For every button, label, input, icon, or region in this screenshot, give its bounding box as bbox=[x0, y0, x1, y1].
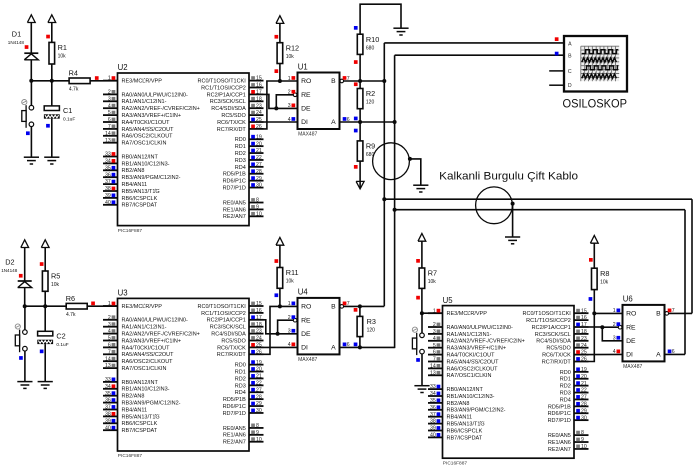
svg-text:RC5/SDO: RC5/SDO bbox=[221, 338, 246, 344]
wire D1 anode to node row / horizontal node wire to U2 pin 1 bbox=[30, 60, 32, 81]
svg-text:RE: RE bbox=[301, 317, 311, 324]
svg-text:15: 15 bbox=[581, 308, 587, 314]
svg-text:RA0/AN0/ULPWU/C12IN0-: RA0/AN0/ULPWU/C12IN0- bbox=[447, 325, 513, 331]
svg-text:RA6/OSC2/CLKOUT: RA6/OSC2/CLKOUT bbox=[447, 366, 499, 372]
state square button SW2 bottom bbox=[19, 356, 23, 360]
ground below SW3 bbox=[414, 386, 429, 393]
svg-text:25: 25 bbox=[256, 117, 262, 123]
svg-text:17: 17 bbox=[256, 315, 262, 321]
svg-text:RD6/P1C: RD6/P1C bbox=[223, 179, 246, 185]
svg-text:RB4/AN11: RB4/AN11 bbox=[447, 415, 473, 421]
svg-text:RC6/TX/CK: RC6/TX/CK bbox=[217, 345, 246, 351]
svg-text:3: 3 bbox=[108, 322, 111, 328]
wire R7 bottom to U5 pin1 node bbox=[421, 288, 423, 313]
svg-text:R2: R2 bbox=[366, 89, 375, 98]
svg-text:R11: R11 bbox=[286, 268, 299, 277]
svg-text:RC0/T1OSO/T1CKI: RC0/T1OSO/T1CKI bbox=[198, 79, 247, 85]
state square R10 top bbox=[354, 26, 358, 30]
svg-text:1: 1 bbox=[108, 76, 111, 82]
svg-text:34: 34 bbox=[105, 384, 111, 390]
junction R8/U6.RO bbox=[592, 311, 596, 315]
svg-text:RE: RE bbox=[301, 92, 311, 99]
svg-text:C2: C2 bbox=[56, 332, 65, 341]
state square R2 top bbox=[354, 82, 358, 86]
wire B node vertical (to scope and cable) bbox=[383, 43, 385, 306]
svg-text:RD7/P1D: RD7/P1D bbox=[223, 411, 246, 417]
svg-text:RE3/MCLR/VPP: RE3/MCLR/VPP bbox=[447, 311, 488, 317]
svg-text:RD6/P1C: RD6/P1C bbox=[223, 404, 246, 410]
svg-text:RD3: RD3 bbox=[560, 390, 571, 396]
svg-text:28: 28 bbox=[256, 169, 262, 175]
svg-text:RC1/T1OSI/CCP2: RC1/T1OSI/CCP2 bbox=[526, 318, 571, 324]
svg-text:RB1/AN10/C12IN3-: RB1/AN10/C12IN3- bbox=[447, 394, 495, 400]
svg-text:RA1/AN1/C12IN1-: RA1/AN1/C12IN1- bbox=[122, 99, 167, 105]
wire branch U4.RE tie bbox=[278, 320, 294, 334]
svg-text:RB2/AN8: RB2/AN8 bbox=[122, 394, 145, 400]
power VCC arrow above D1 bbox=[27, 15, 35, 53]
svg-text:14: 14 bbox=[105, 131, 111, 137]
wire button SW2 bottom to ground bbox=[24, 351, 26, 382]
svg-text:RO: RO bbox=[301, 304, 311, 311]
svg-text:RD7/P1D: RD7/P1D bbox=[223, 185, 246, 191]
svg-text:120: 120 bbox=[367, 328, 376, 334]
svg-text:RE1/AN6: RE1/AN6 bbox=[223, 207, 246, 213]
resistor R9 680 bbox=[357, 141, 375, 161]
svg-text:20: 20 bbox=[581, 374, 587, 380]
ground of left shield tap bbox=[413, 185, 428, 192]
wire U4.A to A bus riser bbox=[340, 346, 395, 348]
svg-text:B: B bbox=[331, 78, 336, 85]
svg-text:RE0/AN5: RE0/AN5 bbox=[223, 200, 246, 206]
state square R3 bottom bbox=[354, 343, 358, 347]
svg-text:RB6/ICSPCLK: RB6/ICSPCLK bbox=[122, 421, 158, 427]
svg-text:34: 34 bbox=[430, 391, 436, 397]
svg-text:RA2/AN2/VREF-/CVREF/C2IN+: RA2/AN2/VREF-/CVREF/C2IN+ bbox=[122, 106, 200, 112]
svg-text:RD5/P1B: RD5/P1B bbox=[223, 397, 246, 403]
wire U5.RC2(17) to U6 RE/DE tie bbox=[589, 326, 603, 328]
junction U1 DE/RE tie bbox=[274, 106, 278, 110]
svg-text:27: 27 bbox=[256, 162, 262, 168]
svg-text:RC0/T1OSO/T1CKI: RC0/T1OSO/T1CKI bbox=[523, 311, 572, 317]
svg-text:23: 23 bbox=[256, 329, 262, 335]
ground of right shield tap bbox=[505, 237, 520, 244]
svg-text:RC0/T1OSO/T1CKI: RC0/T1OSO/T1CKI bbox=[198, 304, 247, 310]
svg-text:9: 9 bbox=[581, 437, 584, 443]
svg-text:RE0/AN5: RE0/AN5 bbox=[223, 426, 246, 432]
svg-text:25: 25 bbox=[581, 350, 587, 356]
svg-text:26: 26 bbox=[581, 357, 587, 363]
svg-text:D2: D2 bbox=[5, 258, 14, 267]
svg-text:38: 38 bbox=[105, 412, 111, 418]
svg-text:RB3/AN9/PGM/C12IN2-: RB3/AN9/PGM/C12IN2- bbox=[447, 408, 506, 414]
wire U3.RC6(25) to U4.DI bbox=[264, 346, 298, 348]
oscilloscope OSILOSKOP bbox=[564, 36, 627, 92]
capacitor C2 0.1uF bbox=[37, 331, 68, 348]
svg-text:MAX487: MAX487 bbox=[298, 132, 317, 138]
svg-text:15: 15 bbox=[256, 301, 262, 307]
junction node D1/wire bbox=[29, 79, 33, 83]
wire R9 top stem bbox=[359, 122, 361, 141]
svg-text:35: 35 bbox=[105, 165, 111, 171]
svg-text:R6: R6 bbox=[66, 294, 75, 303]
wire U3.RC7(26) to U4.RO bbox=[264, 306, 298, 354]
transceiver U1 MAX487 bbox=[288, 62, 350, 137]
wire button SW3 top bbox=[421, 313, 423, 333]
svg-text:DI: DI bbox=[301, 345, 308, 352]
svg-text:26: 26 bbox=[256, 124, 262, 130]
wire R2 stems bbox=[359, 81, 361, 89]
state square R10 bottom bbox=[354, 60, 358, 64]
svg-text:19: 19 bbox=[581, 367, 587, 373]
svg-text:4: 4 bbox=[108, 329, 111, 335]
svg-text:RA4/T0CKI/C1OUT: RA4/T0CKI/C1OUT bbox=[122, 345, 171, 351]
diode D2 1N4148 bbox=[1, 258, 32, 288]
wire R11 bottom to U4.RO node bbox=[279, 288, 281, 306]
svg-text:28: 28 bbox=[256, 394, 262, 400]
svg-text:24: 24 bbox=[256, 336, 262, 342]
resistor R3 120 bbox=[357, 316, 376, 336]
state square R12 top bbox=[275, 35, 279, 39]
svg-text:OSILOSKOP: OSILOSKOP bbox=[563, 97, 628, 111]
svg-text:RD4: RD4 bbox=[235, 390, 246, 396]
state square C1 bottom bbox=[46, 124, 50, 128]
svg-text:34: 34 bbox=[105, 159, 111, 165]
svg-text:RB3/AN9/PGM/C12IN2-: RB3/AN9/PGM/C12IN2- bbox=[122, 175, 181, 181]
junction R11/U4.RO bbox=[278, 304, 282, 308]
svg-text:27: 27 bbox=[256, 387, 262, 393]
svg-text:RA0/AN0/ULPWU/C12IN0-: RA0/AN0/ULPWU/C12IN0- bbox=[122, 318, 188, 324]
svg-text:R3: R3 bbox=[367, 317, 376, 326]
svg-text:DE: DE bbox=[626, 338, 636, 345]
svg-text:10k: 10k bbox=[600, 279, 609, 285]
wire node to U5 pin 1 bbox=[422, 312, 443, 314]
svg-text:35: 35 bbox=[105, 391, 111, 397]
push button SW3 (U5 reset) bbox=[412, 327, 424, 355]
wire U2.RC6(25) to U1.DI bbox=[264, 121, 298, 123]
svg-text:DE: DE bbox=[301, 331, 311, 338]
wire D2 anode to node row / horizontal node wire to U3 pin 1 bbox=[24, 287, 26, 306]
svg-text:RB4/AN11: RB4/AN11 bbox=[122, 407, 148, 413]
wire shield tap left to ground bbox=[410, 159, 421, 185]
power VCC arrow above R12 bbox=[276, 16, 284, 43]
svg-text:37: 37 bbox=[105, 179, 111, 185]
svg-text:33: 33 bbox=[105, 152, 111, 158]
microcontroller U3 PIC16F887 bbox=[103, 289, 264, 460]
power VCC arrow above R1 bbox=[48, 15, 56, 43]
resistor R12 10k bbox=[277, 43, 299, 64]
svg-text:RC3/SCK/SCL: RC3/SCK/SCL bbox=[210, 325, 246, 331]
svg-text:RB1/AN10/C12IN3-: RB1/AN10/C12IN3- bbox=[122, 161, 170, 167]
svg-text:RD2: RD2 bbox=[235, 151, 246, 157]
svg-text:RC4/SDI/SDA: RC4/SDI/SDA bbox=[211, 332, 246, 338]
wire C2 bottom to ground bbox=[44, 344, 46, 382]
junction R3 bottom on A line bbox=[358, 345, 362, 349]
svg-text:R8: R8 bbox=[600, 269, 609, 278]
svg-text:14: 14 bbox=[105, 356, 111, 362]
svg-text:RD3: RD3 bbox=[235, 158, 246, 164]
svg-text:RE2/AN7: RE2/AN7 bbox=[223, 214, 246, 220]
junction U6 RE/DE tie bbox=[600, 325, 604, 329]
svg-text:6: 6 bbox=[108, 343, 111, 349]
svg-text:A: A bbox=[331, 119, 336, 126]
svg-text:U4: U4 bbox=[298, 288, 309, 297]
svg-text:RA0/AN0/ULPWU/C12IN0-: RA0/AN0/ULPWU/C12IN0- bbox=[122, 92, 188, 98]
svg-text:RO: RO bbox=[301, 78, 311, 85]
svg-text:10: 10 bbox=[256, 437, 262, 443]
state square scope channel A input bbox=[555, 37, 559, 41]
svg-text:RD2: RD2 bbox=[560, 384, 571, 390]
svg-text:23: 23 bbox=[581, 336, 587, 342]
svg-text:R4: R4 bbox=[69, 69, 78, 78]
wire oscilloscope channel C stub bbox=[549, 70, 564, 72]
state square R8 top bbox=[589, 258, 593, 262]
state square R5 top bbox=[40, 262, 44, 266]
wire R10 top to ground (up and right) bbox=[360, 4, 401, 34]
svg-text:PIC16F887: PIC16F887 bbox=[118, 228, 143, 234]
junction R7/U5.MCLR/button bbox=[420, 311, 424, 315]
resistor R8 10k bbox=[592, 268, 610, 289]
svg-text:14: 14 bbox=[430, 364, 436, 370]
ground at R10 (top) bbox=[393, 28, 408, 35]
state square D1 cathode bbox=[25, 45, 29, 49]
wire U2.RC7(26) to U1.RO bbox=[264, 81, 298, 129]
wire button bottom to ground bbox=[30, 127, 32, 158]
svg-text:39: 39 bbox=[105, 418, 111, 424]
svg-text:RA3/AN3/VREF+/C1IN+: RA3/AN3/VREF+/C1IN+ bbox=[122, 113, 182, 119]
svg-text:21: 21 bbox=[256, 374, 262, 380]
svg-text:10k: 10k bbox=[428, 279, 437, 285]
state square D2 cathode bbox=[19, 274, 23, 278]
svg-text:24: 24 bbox=[581, 343, 587, 349]
svg-text:39: 39 bbox=[105, 193, 111, 199]
capacitor C1 0.1uF bbox=[44, 106, 75, 123]
svg-text:RD1: RD1 bbox=[235, 369, 246, 375]
svg-text:4.7k: 4.7k bbox=[66, 312, 76, 318]
svg-text:20: 20 bbox=[256, 367, 262, 373]
svg-text:4: 4 bbox=[108, 103, 111, 109]
svg-text:13: 13 bbox=[105, 363, 111, 369]
ground below SW1 bbox=[24, 157, 39, 164]
svg-text:7: 7 bbox=[108, 124, 111, 130]
svg-text:25: 25 bbox=[256, 343, 262, 349]
svg-text:RA3/AN3/VREF+/C1IN+: RA3/AN3/VREF+/C1IN+ bbox=[447, 346, 507, 352]
svg-text:16: 16 bbox=[256, 308, 262, 314]
power VCC arrow above R11 bbox=[276, 238, 284, 268]
svg-text:A: A bbox=[568, 41, 572, 47]
resistor R1 10k bbox=[49, 42, 67, 64]
microcontroller U2 PIC16F887 bbox=[103, 63, 264, 234]
push button SW1 (top-left) bbox=[22, 100, 34, 128]
microcontroller U5 PIC16F887 bbox=[428, 296, 589, 467]
state square R11 top bbox=[275, 259, 279, 263]
svg-text:RA4/T0CKI/C1OUT: RA4/T0CKI/C1OUT bbox=[122, 120, 171, 126]
state square scope channel B input bbox=[555, 52, 559, 56]
resistor R5 10k bbox=[42, 271, 60, 291]
svg-text:2: 2 bbox=[108, 90, 111, 96]
wire U6.B to bus corner bbox=[669, 312, 692, 314]
svg-text:36: 36 bbox=[430, 405, 436, 411]
svg-text:RC1/T1OSI/CCP2: RC1/T1OSI/CCP2 bbox=[201, 85, 246, 91]
resistor R2 120 bbox=[357, 89, 375, 109]
wire A to oscilloscope channel B bbox=[395, 54, 564, 56]
svg-text:RE: RE bbox=[626, 324, 636, 331]
svg-text:23: 23 bbox=[256, 103, 262, 109]
state square R12 bottom bbox=[275, 69, 279, 73]
svg-text:RD2: RD2 bbox=[235, 376, 246, 382]
svg-text:RC7/RX/DT: RC7/RX/DT bbox=[217, 352, 247, 358]
wire R3 stems bbox=[359, 306, 361, 316]
svg-text:120: 120 bbox=[366, 100, 375, 106]
svg-text:R9: R9 bbox=[366, 142, 375, 151]
svg-text:RC1/T1OSI/CCP2: RC1/T1OSI/CCP2 bbox=[201, 311, 246, 317]
state square R9 top bbox=[354, 129, 358, 133]
svg-text:10: 10 bbox=[256, 211, 262, 217]
svg-text:D: D bbox=[568, 83, 572, 89]
ground below C1 bbox=[44, 157, 59, 164]
junction B/scope riser bbox=[382, 79, 386, 83]
junction U4 DE/RE tie bbox=[276, 332, 280, 336]
svg-text:39: 39 bbox=[430, 426, 436, 432]
svg-text:13: 13 bbox=[105, 138, 111, 144]
svg-text:7: 7 bbox=[108, 349, 111, 355]
junction node R1/C1/wire bbox=[50, 79, 54, 83]
state square R2 bottom bbox=[354, 117, 358, 121]
state square R6 right bbox=[91, 302, 95, 306]
resistor R6 4.7k bbox=[66, 294, 88, 318]
svg-text:C1: C1 bbox=[63, 106, 72, 115]
svg-text:22: 22 bbox=[256, 155, 262, 161]
svg-text:36: 36 bbox=[105, 398, 111, 404]
junction shield tap left bbox=[408, 157, 412, 161]
junction A/scope riser bbox=[393, 120, 397, 124]
svg-text:RD0: RD0 bbox=[235, 137, 246, 143]
svg-text:RC2/P1A/CCP1: RC2/P1A/CCP1 bbox=[532, 325, 571, 331]
state square R11 bottom bbox=[275, 293, 279, 297]
ground below SW2 bbox=[17, 382, 32, 389]
svg-text:RB3/AN9/PGM/C12IN2-: RB3/AN9/PGM/C12IN2- bbox=[122, 401, 181, 407]
svg-text:0.1uF: 0.1uF bbox=[63, 117, 75, 123]
ground arrow below R9 bbox=[356, 161, 364, 189]
ground below C2 bbox=[38, 382, 53, 389]
svg-text:18: 18 bbox=[256, 322, 262, 328]
svg-text:29: 29 bbox=[581, 408, 587, 414]
svg-text:RC6/TX/CK: RC6/TX/CK bbox=[542, 353, 571, 359]
junction shield tap right bbox=[511, 202, 515, 206]
svg-text:RC3/SCK/SCL: RC3/SCK/SCL bbox=[535, 332, 571, 338]
svg-text:30: 30 bbox=[256, 408, 262, 414]
svg-text:18: 18 bbox=[581, 329, 587, 335]
state square R4 right bbox=[95, 76, 99, 80]
svg-text:38: 38 bbox=[105, 186, 111, 192]
svg-text:10k: 10k bbox=[286, 279, 295, 285]
svg-text:RB0/AN12/INT: RB0/AN12/INT bbox=[122, 154, 159, 160]
svg-text:RO: RO bbox=[626, 311, 636, 318]
svg-text:RB2/AN8: RB2/AN8 bbox=[122, 168, 145, 174]
svg-text:17: 17 bbox=[581, 322, 587, 328]
wire A bus down to U6.A bbox=[684, 210, 686, 355]
svg-text:U1: U1 bbox=[298, 62, 308, 71]
svg-text:B: B bbox=[568, 54, 572, 60]
junction node R5/C2/wire bbox=[43, 304, 47, 308]
svg-text:21: 21 bbox=[256, 148, 262, 154]
svg-text:R10: R10 bbox=[366, 35, 379, 44]
svg-text:RE1/AN6: RE1/AN6 bbox=[548, 440, 571, 446]
svg-text:U2: U2 bbox=[118, 63, 128, 72]
svg-text:RA1/AN1/C12IN1-: RA1/AN1/C12IN1- bbox=[122, 325, 167, 331]
wire R5 bottom through node to C2 top bbox=[44, 291, 46, 331]
transceiver U4 MAX487 bbox=[288, 288, 350, 363]
svg-text:RD5/P1B: RD5/P1B bbox=[223, 172, 246, 178]
svg-text:17: 17 bbox=[256, 90, 262, 96]
svg-text:RE1/AN6: RE1/AN6 bbox=[223, 433, 246, 439]
state square button SW1 bottom bbox=[26, 131, 30, 135]
svg-text:RE0/AN5: RE0/AN5 bbox=[548, 433, 571, 439]
wire branch U1.RE tie bbox=[276, 95, 293, 109]
svg-text:RD5/P1B: RD5/P1B bbox=[548, 404, 571, 410]
svg-text:RA5/AN4/SS/C2OUT: RA5/AN4/SS/C2OUT bbox=[447, 359, 500, 365]
svg-text:8: 8 bbox=[256, 198, 259, 204]
svg-text:RC5/SDO: RC5/SDO bbox=[221, 113, 246, 119]
svg-text:29: 29 bbox=[256, 176, 262, 182]
svg-text:9: 9 bbox=[256, 430, 259, 436]
wire R10 bottom to B node bbox=[359, 54, 361, 81]
svg-text:RC2/P1A/CCP1: RC2/P1A/CCP1 bbox=[207, 318, 246, 324]
state square C2 bottom bbox=[40, 350, 44, 354]
svg-text:RD0: RD0 bbox=[235, 363, 246, 369]
svg-text:1: 1 bbox=[108, 301, 111, 307]
svg-text:RB7/ICSPDAT: RB7/ICSPDAT bbox=[122, 428, 158, 434]
svg-text:RC4/SDI/SDA: RC4/SDI/SDA bbox=[211, 106, 246, 112]
wire B bus horizontal to right bbox=[384, 198, 692, 200]
wire U2.RC2(17) to U1.DE bbox=[264, 94, 298, 108]
svg-text:RC5/SDO: RC5/SDO bbox=[546, 346, 571, 352]
svg-text:RA1/AN1/C12IN1-: RA1/AN1/C12IN1- bbox=[447, 332, 492, 338]
svg-text:15: 15 bbox=[256, 76, 262, 82]
svg-text:28: 28 bbox=[581, 401, 587, 407]
svg-text:8: 8 bbox=[581, 430, 584, 436]
svg-text:33: 33 bbox=[430, 384, 436, 390]
svg-text:680: 680 bbox=[366, 45, 375, 51]
svg-text:RB6/ICSPCLK: RB6/ICSPCLK bbox=[447, 428, 483, 434]
svg-text:RB5/AN13/T1G: RB5/AN13/T1G bbox=[122, 189, 160, 195]
svg-text:MAX487: MAX487 bbox=[623, 364, 642, 370]
svg-text:1N4148: 1N4148 bbox=[1, 268, 18, 273]
svg-text:10k: 10k bbox=[286, 54, 295, 60]
wire button SW3 bottom to ground bbox=[421, 354, 423, 386]
wire U6.RO to node bbox=[594, 312, 622, 314]
wire R1 bottom through node to C1 top bbox=[51, 64, 53, 106]
wire B to oscilloscope channel A bbox=[384, 42, 564, 44]
svg-text:C: C bbox=[568, 69, 572, 75]
wire oscilloscope channel D stub bbox=[549, 84, 564, 86]
svg-text:19: 19 bbox=[256, 134, 262, 140]
svg-text:19: 19 bbox=[256, 360, 262, 366]
svg-text:18: 18 bbox=[256, 96, 262, 102]
junction A node / R2 / R9 bbox=[358, 120, 362, 124]
junction node D2/wire bbox=[23, 304, 27, 308]
svg-text:B: B bbox=[656, 311, 661, 318]
wire U1.B to bus node bbox=[344, 80, 385, 82]
svg-text:DE: DE bbox=[301, 106, 311, 113]
svg-text:RD3: RD3 bbox=[235, 383, 246, 389]
svg-text:U5: U5 bbox=[443, 296, 454, 305]
power VCC arrow above R5 bbox=[41, 240, 49, 271]
svg-text:U6: U6 bbox=[623, 295, 633, 304]
resistor R11 10k bbox=[277, 268, 298, 289]
resistor R7 10k bbox=[419, 268, 437, 288]
svg-text:U3: U3 bbox=[118, 289, 128, 298]
wire R12 bottom to U1.RO node bbox=[279, 64, 281, 82]
